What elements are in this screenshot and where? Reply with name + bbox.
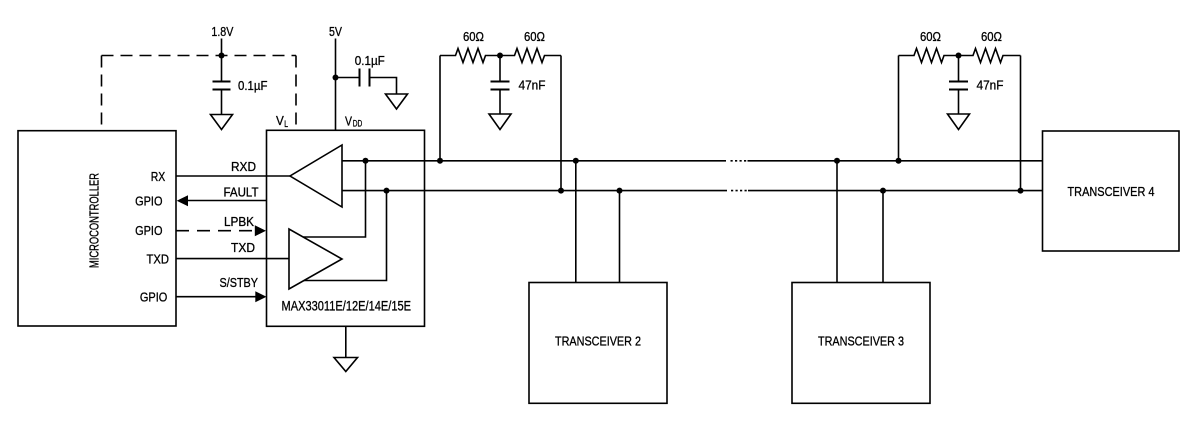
node bus B / transceiver 3 — [880, 188, 886, 194]
node bus A / termination 2 — [896, 158, 902, 164]
bus A wire (left segment) — [342, 160, 726, 162]
node bus A / termination 1 — [437, 158, 443, 164]
node 1.8V junction — [219, 53, 225, 59]
driver buffer (inside U1) — [289, 229, 342, 289]
termination 1: wire from bus A — [439, 56, 441, 161]
svg-text:TRANSCEIVER 3: TRANSCEIVER 3 — [818, 334, 904, 349]
svg-text:TXD: TXD — [231, 240, 255, 255]
wire C1 to ground — [221, 91, 223, 115]
arrowhead S/STBY (into U1) — [255, 291, 266, 302]
svg-text:RX: RX — [151, 169, 166, 184]
node bus B / termination 1 — [558, 188, 564, 194]
wire RX (RXD) — [176, 175, 290, 177]
wire C2 to ground — [371, 78, 397, 95]
svg-text:1.8V: 1.8V — [211, 24, 233, 39]
ground (C2) — [386, 94, 408, 109]
capacitor C4 plates — [949, 81, 968, 83]
wire transceiver 2 to bus B — [619, 191, 621, 283]
dashed VL wire to microcontroller — [101, 56, 103, 131]
bus A break dots — [731, 160, 747, 162]
resistor R2 60ohm — [500, 49, 561, 63]
wire transceiver 2 to bus A — [575, 161, 577, 283]
svg-text:S/STBY: S/STBY — [220, 275, 259, 290]
driver output wire to bus A — [303, 161, 365, 237]
node bus B / termination 2 — [1018, 188, 1024, 194]
svg-text:TRANSCEIVER 4: TRANSCEIVER 4 — [1068, 184, 1155, 199]
node bus A / driver out — [363, 158, 369, 164]
transceiver 2 box — [529, 283, 667, 404]
capacitor C3 47nF wire — [499, 56, 501, 81]
wire transceiver 3 to bus B — [882, 191, 884, 283]
node termination 2 midpoint — [956, 53, 962, 59]
svg-text:FAULT: FAULT — [224, 185, 259, 200]
svg-text:60Ω: 60Ω — [463, 29, 484, 44]
transceiver 3 box — [792, 283, 930, 404]
svg-text:DD: DD — [353, 119, 363, 129]
bus B wire (left segment) — [342, 190, 727, 192]
termination 1: wire to bus B — [560, 56, 562, 191]
ground (C4) — [948, 114, 970, 130]
svg-text:GPIO: GPIO — [135, 194, 162, 209]
1.8V supply stub wire — [221, 39, 223, 56]
microcontroller box U2 — [18, 131, 176, 326]
node bus B / driver out — [384, 188, 390, 194]
ground (C3) — [489, 114, 511, 130]
driver output wire to bus B — [304, 191, 387, 281]
svg-text:RXD: RXD — [231, 159, 256, 174]
receiver buffer (inside U1) — [290, 145, 342, 207]
svg-text:0.1µF: 0.1µF — [238, 78, 268, 93]
wire TXD — [176, 258, 289, 260]
svg-text:V: V — [276, 113, 284, 128]
svg-text:MAX33011E/12E/14E/15E: MAX33011E/12E/14E/15E — [282, 299, 412, 314]
termination 2: wire to bus B — [1020, 56, 1022, 191]
transceiver 4 box — [1043, 131, 1180, 251]
capacitor C3 plates — [491, 81, 510, 83]
resistor R3 60ohm — [899, 49, 959, 63]
ground (C1) — [211, 115, 233, 130]
capacitor C1 0.1uF wire — [221, 56, 223, 81]
bus B wire (right segment) — [748, 190, 1043, 192]
capacitor C2 plates — [359, 69, 361, 87]
wire LPBK (dashed) — [176, 230, 256, 232]
wire S/STBY — [176, 296, 256, 298]
bus B break dots — [731, 190, 747, 192]
wire FAULT — [186, 200, 267, 202]
svg-text:V: V — [345, 113, 352, 128]
svg-text:TRANSCEIVER 2: TRANSCEIVER 2 — [555, 334, 641, 349]
bus A wire (right segment) — [748, 160, 1043, 162]
wire transceiver 3 to bus A — [836, 161, 838, 283]
MAX33011E transceiver box U1 — [267, 130, 425, 326]
svg-text:60Ω: 60Ω — [981, 29, 1002, 44]
svg-text:0.1µF: 0.1µF — [355, 53, 385, 68]
resistor R4 60ohm — [959, 49, 1021, 63]
svg-text:5V: 5V — [329, 24, 342, 39]
node bus A / transceiver 2 — [573, 158, 579, 164]
capacitor C4 47nF wire — [958, 56, 960, 81]
node termination 1 midpoint — [497, 53, 503, 59]
svg-text:MICROCONTROLLER: MICROCONTROLLER — [87, 173, 102, 268]
svg-text:47nF: 47nF — [977, 77, 1004, 92]
wire C3 to ground — [499, 91, 501, 115]
dashed VL wire to U1 VL pin — [295, 56, 297, 131]
resistor R1 60ohm — [440, 49, 500, 63]
svg-text:GPIO: GPIO — [135, 223, 162, 238]
svg-text:TXD: TXD — [147, 251, 170, 266]
node bus A / transceiver 3 — [834, 158, 840, 164]
svg-text:L: L — [284, 119, 288, 129]
termination 2: wire from bus A — [898, 56, 900, 161]
svg-text:60Ω: 60Ω — [524, 29, 545, 44]
ground (U1 GND pin) — [345, 326, 347, 358]
arrowhead LPBK (into U1) — [255, 225, 266, 236]
wire C4 to ground — [958, 91, 960, 115]
capacitor C1 plates — [213, 81, 231, 83]
capacitor C2 0.1uF wire — [336, 77, 359, 79]
5V supply wire to VDD — [335, 39, 337, 131]
svg-text:60Ω: 60Ω — [920, 29, 941, 44]
svg-text:47nF: 47nF — [519, 77, 546, 92]
svg-text:GPIO: GPIO — [140, 290, 167, 305]
node 5V junction — [333, 75, 339, 81]
svg-text:LPBK: LPBK — [224, 214, 254, 229]
arrowhead FAULT (into microcontroller) — [177, 195, 188, 206]
dashed VL supply wire (horizontal) — [102, 55, 297, 57]
node bus B / transceiver 2 — [617, 188, 623, 194]
